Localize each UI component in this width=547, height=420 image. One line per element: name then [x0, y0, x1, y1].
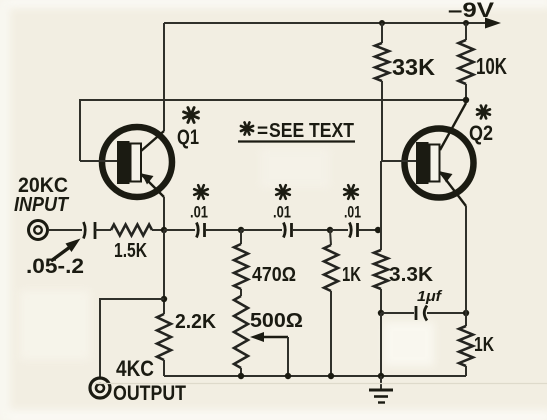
- svg-text:33K: 33K: [392, 54, 435, 80]
- svg-text:2.2K: 2.2K: [175, 311, 217, 333]
- capacitor C2 .01: [241, 223, 330, 238]
- svg-text:INPUT: INPUT: [14, 194, 70, 216]
- svg-text:1K: 1K: [474, 334, 494, 356]
- wire 3.3K node down to ground rail: [380, 313, 382, 376]
- wire bottom ground rail: [164, 375, 466, 377]
- asterisk above Q2: [477, 106, 490, 119]
- svg-text:470Ω: 470Ω: [252, 264, 296, 286]
- transistor Q2 (PNP): [381, 103, 474, 206]
- asterisk above C2: [276, 185, 290, 199]
- wire Q1 base loop (left vertical + long horizontal to Q2 collector node): [80, 100, 466, 161]
- svg-text:.01: .01: [273, 203, 291, 222]
- svg-text:1K: 1K: [342, 264, 361, 286]
- node junction C2 / 1K: [327, 227, 333, 233]
- svg-text:SEE TEXT: SEE TEXT: [269, 120, 354, 142]
- svg-text:=: =: [257, 121, 268, 142]
- ground symbol: [369, 376, 393, 403]
- wire Q1 collector to top rail: [163, 23, 165, 131]
- node junction C1 / 470 ohm: [238, 227, 244, 233]
- svg-text:Q2: Q2: [469, 122, 493, 145]
- svg-text:–9V: –9V: [448, 0, 494, 22]
- asterisk above C3: [344, 185, 358, 199]
- wire Q1 emitter down to input node: [163, 197, 165, 230]
- resistor 3.3K: [374, 230, 388, 313]
- input jack terminal: [29, 221, 48, 240]
- svg-text:.05-.2: .05-.2: [26, 255, 84, 278]
- asterisk above C1: [194, 185, 208, 199]
- wire Q2 emitter down to 1uf node: [465, 206, 467, 313]
- wire top -9V rail: [164, 22, 488, 24]
- node junction output tap: [161, 296, 167, 302]
- faint scan artifact line: [95, 383, 547, 385]
- capacitor C1 .01: [164, 223, 241, 238]
- node junction Q2 emitter / 1uf / 1K: [463, 310, 469, 316]
- capacitor C3 .01: [330, 223, 381, 238]
- node junction input / Q1 emitter: [161, 227, 167, 233]
- wiper arrow of 500 ohm pot: [250, 332, 288, 376]
- node junction Q2 collector / 10K / feedback wire: [463, 97, 469, 103]
- resistor 2.2K: [157, 314, 171, 376]
- node junction 3.3K / 1uf: [378, 310, 384, 316]
- svg-text:1μf: 1μf: [417, 288, 443, 305]
- power -9V arrow terminal: [485, 18, 501, 29]
- capacitor 1uf: [381, 306, 466, 321]
- node junction rail / wiper: [285, 373, 291, 379]
- wire input jack to coupling cap: [48, 229, 82, 231]
- wire emitter node down to output tap: [163, 230, 165, 314]
- transistor Q1 (PNP): [80, 127, 172, 197]
- node junction C3 / Q2 base line: [375, 227, 381, 233]
- svg-text:Q1: Q1: [177, 126, 199, 149]
- svg-text:.01: .01: [344, 203, 361, 222]
- wire 33K to Q2 base and C3 node: [380, 161, 382, 230]
- svg-text:1.5K: 1.5K: [114, 240, 147, 262]
- node junction rail / 500 ohm: [238, 373, 244, 379]
- svg-text:.01: .01: [190, 203, 208, 222]
- node junction rail / ground: [378, 373, 384, 379]
- node junction top rail / 10K: [463, 20, 469, 26]
- node junction rail / 1K shunt: [328, 373, 334, 379]
- node junction top rail / 33K: [379, 20, 385, 26]
- asterisk above Q1: [184, 108, 199, 123]
- resistor 10K: [459, 23, 474, 100]
- legend asterisk = SEE TEXT: [238, 120, 355, 142]
- resistor 1K (emitter): [459, 313, 473, 376]
- capacitor .05-.2: [84, 222, 96, 239]
- svg-text:10K: 10K: [476, 53, 507, 79]
- svg-text:OUTPUT: OUTPUT: [113, 382, 186, 405]
- resistor 1K (shunt): [324, 230, 338, 376]
- svg-text:500Ω: 500Ω: [250, 310, 303, 332]
- resistor 1.5K: [95, 225, 164, 236]
- resistor 470 ohm: [234, 230, 248, 289]
- svg-text:3.3K: 3.3K: [389, 264, 434, 286]
- callout arrow to .05-.2: [51, 239, 81, 262]
- svg-text:4KC: 4KC: [116, 356, 154, 381]
- potentiometer 500 ohm: [234, 289, 248, 376]
- wire output tap to output jack: [100, 299, 164, 377]
- output jack terminal: [90, 378, 110, 398]
- resistor 33K: [375, 23, 389, 161]
